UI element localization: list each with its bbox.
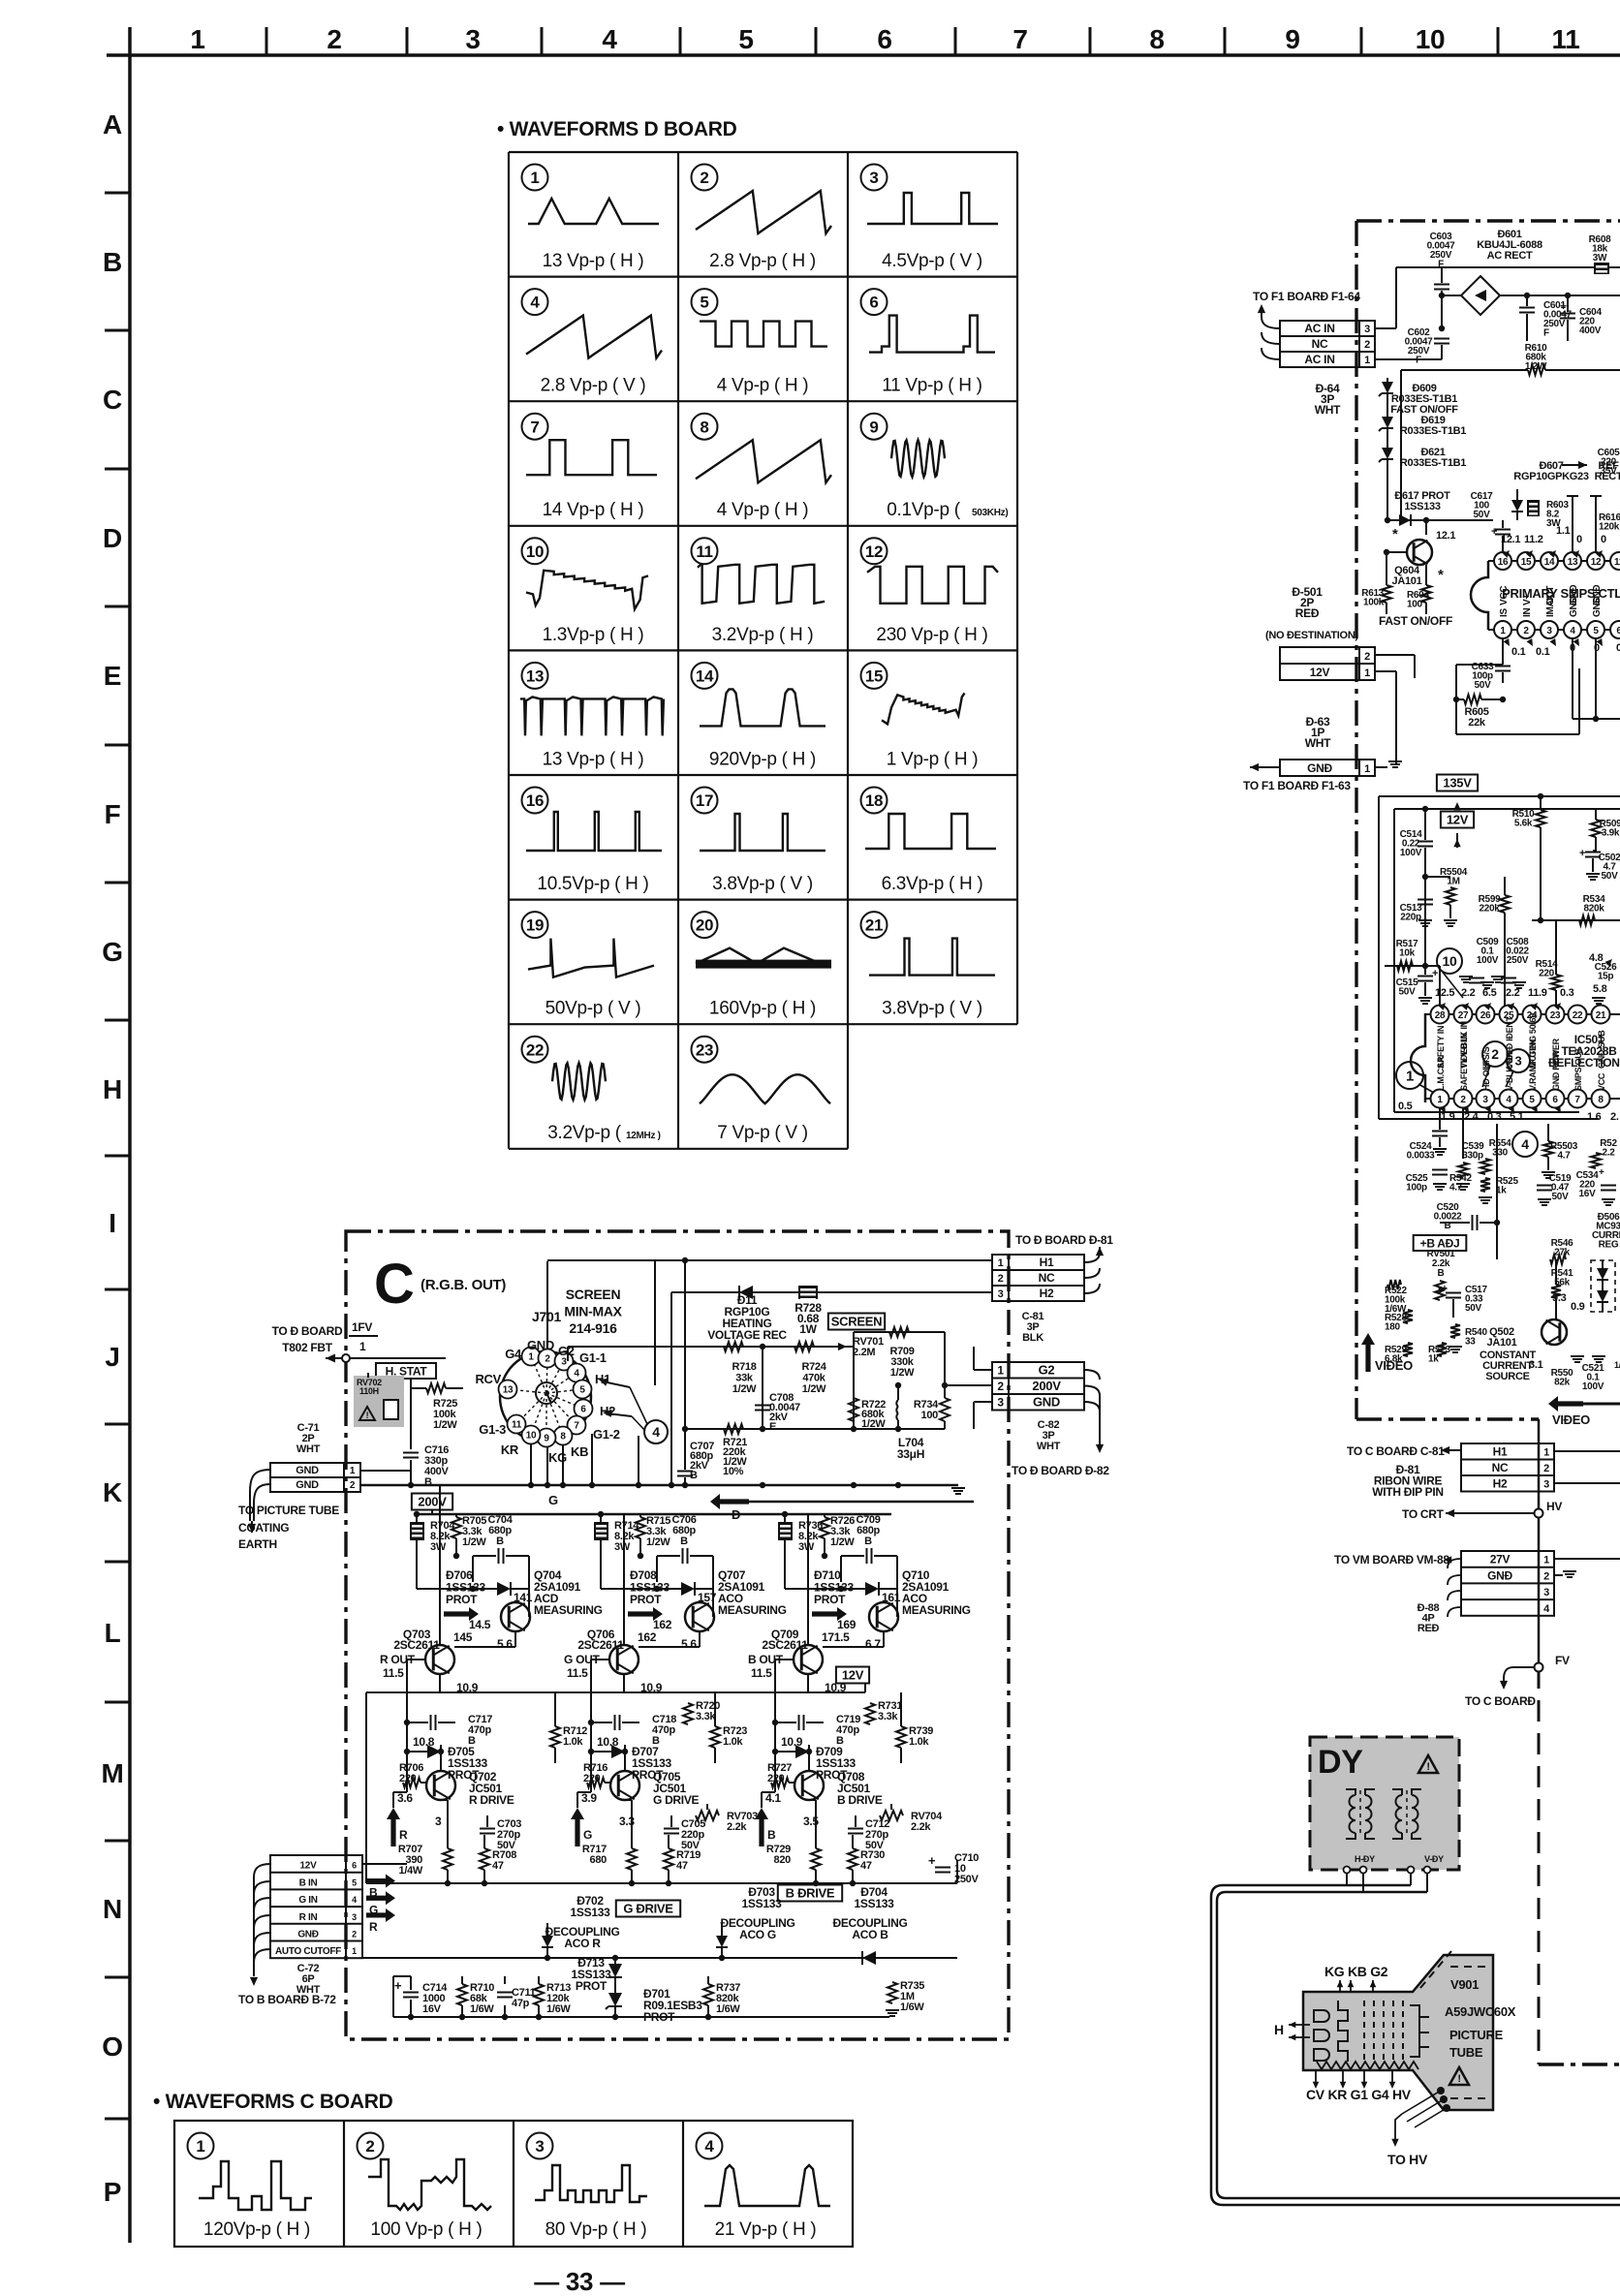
waveform cell 3: [861, 165, 888, 191]
svg-text:VIĐEO: VIĐEO: [1375, 1358, 1413, 1373]
svg-text:0.1: 0.1: [1511, 646, 1526, 658]
svg-text:ĐEFLECTION PROCES: ĐEFLECTION PROCES: [1548, 1056, 1620, 1070]
svg-text:JA101: JA101: [1392, 575, 1422, 587]
svg-text:F: F: [105, 799, 121, 829]
svg-text:MEASURING: MEASURING: [902, 1603, 971, 1617]
svg-text:2.2: 2.2: [1506, 987, 1520, 999]
waveform cell 18: [861, 788, 888, 814]
svg-text:11: 11: [1614, 557, 1620, 568]
200V rail: [417, 1513, 891, 1516]
svg-text:VCC: VCC: [1597, 1072, 1606, 1091]
svg-text:7: 7: [1574, 1095, 1580, 1105]
svg-text:35V: 35V: [1601, 466, 1618, 477]
svg-text:50V: 50V: [1465, 1303, 1482, 1314]
svg-text:1SS133: 1SS133: [855, 1897, 895, 1910]
svg-text:2.4: 2.4: [1464, 1111, 1480, 1123]
svg-text:10.5Vp-p ( H ): 10.5Vp-p ( H ): [537, 874, 648, 894]
pin 27: [1454, 1006, 1473, 1024]
svg-text:3W: 3W: [798, 1541, 815, 1553]
resistor R734: [944, 1385, 946, 1398]
200V label: [412, 1494, 452, 1510]
svg-text:G1-1: G1-1: [579, 1350, 607, 1365]
svg-text:2: 2: [1491, 1046, 1499, 1062]
svg-text:21 Vp-p ( H ): 21 Vp-p ( H ): [715, 2219, 817, 2240]
svg-text:7: 7: [530, 418, 539, 436]
svg-text:820: 820: [774, 1854, 792, 1866]
svg-text:CV KR G1 G4 HV: CV KR G1 G4 HV: [1306, 2087, 1412, 2102]
svg-text:4.5Vp-p ( V ): 4.5Vp-p ( V ): [882, 251, 982, 271]
svg-text:10: 10: [526, 543, 544, 561]
svg-text:KB: KB: [571, 1444, 588, 1459]
svg-text:G: G: [583, 1828, 592, 1842]
svg-text:0: 0: [1576, 534, 1582, 545]
svg-text:9: 9: [1285, 24, 1299, 54]
svg-text:F: F: [1543, 328, 1549, 339]
svg-text:2SC2611: 2SC2611: [762, 1638, 808, 1652]
wire H1: [655, 1261, 992, 1263]
svg-text:100: 100: [921, 1410, 939, 1421]
waveform cell 21: [861, 912, 888, 938]
svg-text:12.5: 12.5: [1435, 987, 1454, 999]
svg-text:7: 7: [574, 1421, 579, 1432]
transistor Q702: [426, 1771, 455, 1800]
resistor R725: [426, 1383, 446, 1393]
svg-text:470k: 470k: [802, 1373, 826, 1384]
svg-text:1: 1: [1543, 1555, 1549, 1567]
pin 6: [1546, 1090, 1565, 1108]
pin headers: [1572, 496, 1573, 508]
waveform cell 7: [522, 414, 548, 440]
svg-text:17: 17: [696, 791, 713, 810]
svg-text:1FV: 1FV: [352, 1320, 372, 1334]
svg-text:200V: 200V: [1032, 1379, 1061, 1393]
svg-text:1: 1: [1364, 763, 1370, 775]
svg-text:100 Vp-p ( H ): 100 Vp-p ( H ): [370, 2219, 482, 2240]
svg-text:PROT: PROT: [816, 1768, 848, 1782]
svg-text:1: 1: [352, 1946, 357, 1956]
svg-text:H: H: [1274, 2022, 1284, 2037]
svg-text:MIN-MAX: MIN-MAX: [564, 1304, 622, 1319]
svg-text:21: 21: [865, 916, 883, 935]
svg-text:+: +: [1491, 526, 1497, 538]
svg-text:5: 5: [700, 294, 708, 312]
svg-text:3: 3: [535, 2137, 544, 2156]
waveform cell 19: [522, 912, 548, 938]
svg-text:7 Vp-p ( V ): 7 Vp-p ( V ): [717, 1123, 808, 1143]
B feedback arrow: [710, 1494, 749, 1509]
svg-text:R033ES-T1B1: R033ES-T1B1: [1400, 425, 1466, 437]
svg-text:6.3Vp-p ( H ): 6.3Vp-p ( H ): [882, 874, 983, 894]
svg-text:0.0033: 0.0033: [1407, 1151, 1436, 1162]
signal arrow R in: [366, 1908, 395, 1922]
svg-text:3.8Vp-p ( V ): 3.8Vp-p ( V ): [712, 874, 813, 894]
C-72 leads: [254, 1864, 270, 1877]
svg-text:B: B: [496, 1536, 504, 1547]
stage wires: [600, 1540, 602, 1589]
pot RV701: [838, 1343, 847, 1350]
svg-text:27: 27: [1458, 1010, 1469, 1021]
svg-text:TO CRT: TO CRT: [1402, 1507, 1445, 1521]
svg-text:P: P: [104, 2177, 121, 2207]
svg-text:11.5: 11.5: [383, 1666, 404, 1680]
svg-text:RCV: RCV: [475, 1372, 501, 1386]
transistor Q706: [609, 1645, 639, 1674]
svg-text:T802 FBT: T802 FBT: [282, 1341, 333, 1354]
svg-text:10: 10: [526, 1431, 537, 1442]
svg-text:6: 6: [869, 294, 878, 312]
svg-text:I: I: [109, 1208, 115, 1238]
pot RV703: [688, 1804, 742, 1827]
emitter bus: [366, 1882, 957, 1884]
svg-text:12.1: 12.1: [1501, 534, 1520, 545]
tube resistive coating: [1317, 2062, 1418, 2069]
ground bus: [360, 1484, 958, 1487]
svg-text:2: 2: [545, 1354, 550, 1365]
12V rail: [366, 1691, 865, 1693]
svg-text:E: E: [769, 1421, 776, 1433]
svg-text:4: 4: [704, 2137, 714, 2156]
svg-text:16: 16: [1498, 557, 1509, 568]
svg-text:2.: 2.: [1610, 1111, 1619, 1123]
svg-text:6: 6: [1616, 626, 1620, 636]
svg-text:GND: GND: [527, 1338, 554, 1352]
svg-text:H2: H2: [1493, 1477, 1508, 1491]
waveform cell 9: [861, 414, 888, 440]
svg-text:2: 2: [352, 1930, 357, 1939]
svg-text:K: K: [103, 1477, 122, 1507]
svg-text:5.8: 5.8: [1593, 983, 1607, 995]
svg-text:1/2W: 1/2W: [890, 1367, 915, 1379]
svg-text:3: 3: [869, 169, 878, 187]
svg-text:TO PICTURE TUBE: TO PICTURE TUBE: [238, 1504, 339, 1517]
svg-text:6: 6: [352, 1861, 357, 1871]
svg-text:8: 8: [700, 418, 708, 436]
diode D619: [1382, 417, 1393, 428]
capacitor C714: [403, 1992, 419, 1994]
pin 25: [1500, 1006, 1518, 1024]
page border ruler top: [107, 53, 1620, 57]
svg-text:1.1: 1.1: [1556, 525, 1571, 537]
svg-text:1/4: 1/4: [1614, 1360, 1620, 1370]
svg-text:100V: 100V: [1582, 1381, 1604, 1392]
waveform cell 23: [692, 1037, 718, 1063]
svg-text:R033ES-T1B1: R033ES-T1B1: [1400, 457, 1466, 469]
svg-text:4.7: 4.7: [1557, 1151, 1571, 1162]
pin 3: [1541, 621, 1558, 638]
svg-text:2: 2: [1364, 651, 1370, 663]
svg-text:5.6k: 5.6k: [1514, 819, 1533, 829]
resistor R735: [888, 1982, 897, 2003]
svg-text:23: 23: [696, 1040, 713, 1059]
svg-text:1: 1: [359, 1340, 366, 1353]
svg-text:2.2k: 2.2k: [727, 1821, 747, 1833]
svg-text:FAST ON/OFF: FAST ON/OFF: [1379, 614, 1452, 628]
svg-text:180: 180: [1385, 1322, 1401, 1333]
svg-text:820k: 820k: [1583, 904, 1604, 915]
svg-text:220p: 220p: [1400, 913, 1421, 923]
B DRIVE label: [778, 1885, 842, 1902]
svg-text:15: 15: [865, 667, 883, 686]
svg-text:3W: 3W: [430, 1541, 447, 1553]
wire socket cathodes: [530, 1444, 532, 1485]
svg-text:11: 11: [512, 1420, 522, 1431]
svg-text:12: 12: [865, 543, 883, 561]
svg-text:FV: FV: [1555, 1654, 1570, 1667]
svg-text:AUTO CUTOFF: AUTO CUTOFF: [275, 1946, 341, 1957]
svg-text:L.M.CAP.: L.M.CAP.: [1436, 1056, 1446, 1091]
svg-text:2: 2: [700, 169, 708, 187]
svg-text:1.6: 1.6: [1587, 1111, 1602, 1123]
diode D711 heating voltage rec: [671, 1291, 992, 1293]
signal arrow B in: [366, 1875, 395, 1888]
resistor R713: [534, 1984, 544, 2005]
pin 26: [1477, 1006, 1495, 1024]
transistor Q709: [794, 1645, 823, 1674]
svg-text:1: 1: [350, 1466, 356, 1476]
svg-text:3: 3: [1364, 324, 1370, 335]
pin 4: [1564, 621, 1581, 638]
svg-text:IS: IS: [1499, 608, 1510, 617]
svg-text:1: 1: [1364, 667, 1370, 679]
svg-text:G ĐRIVE: G ĐRIVE: [623, 1902, 673, 1916]
G DRIVE label: [616, 1901, 680, 1917]
pin 23: [1546, 1006, 1565, 1024]
svg-text:KG KB G2: KG KB G2: [1324, 1964, 1388, 1979]
svg-text:1SS133: 1SS133: [742, 1897, 783, 1910]
svg-text:5: 5: [352, 1877, 357, 1887]
svg-text:10k: 10k: [1399, 948, 1416, 959]
svg-text:6.7: 6.7: [865, 1637, 881, 1651]
svg-text:26: 26: [1480, 1010, 1491, 1021]
svg-text:82k: 82k: [1554, 1378, 1571, 1388]
wire box outer: [1379, 795, 1620, 797]
capacitor C710: [956, 1860, 958, 1883]
svg-text:1/2W: 1/2W: [732, 1383, 757, 1395]
svg-text:G2: G2: [1039, 1363, 1055, 1378]
svg-text:SCREEN: SCREEN: [831, 1315, 882, 1329]
waveform cell 6: [861, 289, 888, 315]
svg-text:3: 3: [435, 1815, 442, 1828]
C board dash-dot border: [346, 1231, 1009, 2039]
pin 8: [1592, 1090, 1610, 1108]
amplifier stage R: [416, 1514, 418, 1560]
svg-text:L: L: [105, 1618, 121, 1648]
pin 28: [1431, 1006, 1449, 1024]
resistor R613: [1382, 585, 1391, 603]
svg-text:ACO G: ACO G: [739, 1928, 776, 1941]
svg-text:R: R: [369, 1920, 378, 1934]
svg-text:TO Đ BOARD: TO Đ BOARD: [272, 1324, 343, 1338]
svg-text:330: 330: [1492, 1148, 1509, 1159]
resistor R605: [1456, 698, 1464, 700]
svg-text:C: C: [103, 385, 122, 415]
svg-text:4: 4: [1506, 1095, 1511, 1105]
svg-text:15: 15: [1521, 557, 1532, 568]
svg-text:G4: G4: [505, 1347, 522, 1361]
svg-text:!: !: [1426, 1761, 1429, 1773]
svg-text:PROT: PROT: [446, 1593, 478, 1606]
svg-text:1: 1: [530, 169, 539, 187]
svg-text:3: 3: [1543, 1479, 1549, 1491]
svg-text:0: 0: [1570, 642, 1575, 654]
svg-text:+: +: [1599, 1167, 1604, 1178]
waveform cell 13: [522, 663, 548, 689]
svg-text:B ĐRIVE: B ĐRIVE: [786, 1886, 835, 1901]
svg-text:A: A: [103, 109, 122, 140]
pin 2: [1517, 621, 1535, 638]
svg-text:10.8: 10.8: [413, 1735, 435, 1749]
svg-text:JA101: JA101: [1487, 1337, 1517, 1349]
resistor R720: [683, 1703, 693, 1724]
svg-text:0.9: 0.9: [1571, 1301, 1585, 1313]
svg-text:A59JWC60X: A59JWC60X: [1445, 2004, 1516, 2019]
svg-text:23: 23: [1550, 1010, 1561, 1021]
signal arrow B: [755, 1808, 768, 1846]
svg-text:50V: 50V: [1475, 680, 1492, 691]
svg-text:TO Đ BOARD Đ-82: TO Đ BOARD Đ-82: [1012, 1464, 1109, 1477]
svg-text:AC IN: AC IN: [1304, 322, 1334, 335]
svg-text:+: +: [1560, 299, 1567, 313]
svg-text:1.0k: 1.0k: [909, 1736, 929, 1748]
wire video row: [1379, 1284, 1385, 1286]
svg-text:2: 2: [350, 1480, 356, 1491]
VIDEO arrow 2: [1548, 1396, 1583, 1412]
svg-text:AC RECT: AC RECT: [1487, 250, 1533, 262]
circled 1: [1396, 1062, 1423, 1089]
svg-text:KG: KG: [548, 1450, 567, 1465]
svg-text:1: 1: [997, 1364, 1004, 1378]
svg-text:REG: REG: [1599, 1240, 1619, 1251]
svg-text:120k: 120k: [1599, 522, 1620, 533]
pot RV501 +B ADJ: [1414, 1235, 1467, 1251]
svg-text:13 Vp-p ( H ): 13 Vp-p ( H ): [543, 749, 644, 769]
svg-text:4: 4: [530, 294, 540, 312]
svg-text:G1-3: G1-3: [479, 1422, 506, 1437]
svg-text:1/6W: 1/6W: [546, 2003, 571, 2015]
svg-text:+: +: [1579, 848, 1585, 859]
svg-text:12V: 12V: [1310, 666, 1330, 679]
resistor R739: [896, 1726, 906, 1748]
waveform C cell 2: [358, 2133, 384, 2159]
svg-text:— 33 —: — 33 —: [534, 2267, 625, 2296]
svg-text:GNĐ: GNĐ: [1307, 761, 1332, 775]
svg-text:WHT: WHT: [296, 1443, 321, 1455]
svg-text:H1: H1: [1493, 1445, 1508, 1459]
svg-text:G1-2: G1-2: [593, 1427, 620, 1442]
svg-text:13: 13: [503, 1385, 514, 1396]
svg-text:5.6: 5.6: [681, 1637, 697, 1651]
svg-text:3: 3: [1482, 1095, 1488, 1105]
svg-text:MEASURING: MEASURING: [718, 1603, 787, 1617]
svg-text:100V: 100V: [1477, 955, 1499, 966]
inductor L704: [897, 1420, 899, 1429]
svg-text:1: 1: [1364, 355, 1370, 366]
svg-text:EARTH: EARTH: [238, 1537, 277, 1551]
svg-text:*: *: [1438, 567, 1444, 583]
pin 16: [1494, 552, 1511, 570]
capacitor C708: [762, 1347, 763, 1429]
svg-text:R: R: [399, 1828, 408, 1842]
svg-text:9: 9: [544, 1434, 549, 1444]
svg-text:5: 5: [738, 24, 753, 54]
pin 2: [1454, 1090, 1473, 1108]
svg-text:22: 22: [1573, 1010, 1583, 1021]
svg-text:162: 162: [638, 1630, 657, 1644]
resistor R722: [853, 1347, 855, 1429]
svg-text:REĐ: REĐ: [1417, 1623, 1440, 1634]
svg-text:12.1: 12.1: [1436, 530, 1455, 542]
svg-text:4 Vp-p ( H ): 4 Vp-p ( H ): [717, 376, 809, 396]
pin 14: [1541, 552, 1558, 570]
svg-text:680: 680: [590, 1854, 607, 1866]
svg-text:1: 1: [1500, 626, 1506, 636]
svg-text:3.3k: 3.3k: [878, 1711, 898, 1722]
svg-text:!: !: [1457, 2073, 1460, 2085]
connector C-72: [270, 1855, 346, 1958]
svg-text:3W: 3W: [614, 1541, 631, 1553]
svg-text:• WAVEFORMS D BOARD: • WAVEFORMS D BOARD: [497, 118, 737, 140]
svg-text:2: 2: [1543, 1570, 1549, 1582]
svg-text:KR: KR: [501, 1443, 519, 1457]
svg-text:10.8: 10.8: [597, 1735, 619, 1749]
pin 4: [1500, 1090, 1518, 1108]
tube internals: [1314, 2010, 1324, 2022]
resistor R604: [1421, 585, 1431, 603]
svg-text:12V: 12V: [1447, 813, 1469, 827]
svg-text:ACO B: ACO B: [852, 1928, 888, 1941]
svg-text:1/6W: 1/6W: [900, 2001, 924, 2013]
node 4 circle: [644, 1420, 668, 1443]
svg-text:47: 47: [676, 1860, 688, 1872]
svg-text:B: B: [103, 247, 122, 277]
svg-text:16: 16: [526, 791, 544, 810]
svg-text:WITH ĐIP PIN: WITH ĐIP PIN: [1372, 1485, 1444, 1499]
svg-text:21: 21: [1596, 1010, 1606, 1021]
svg-text:9.3: 9.3: [1552, 1292, 1567, 1304]
svg-text:MEASURING: MEASURING: [534, 1603, 603, 1617]
svg-text:19: 19: [526, 916, 544, 935]
svg-text:27V: 27V: [1490, 1553, 1511, 1567]
waveform cell 22: [522, 1037, 548, 1063]
svg-text:RGP10GPKG23: RGP10GPKG23: [1513, 471, 1589, 482]
svg-text:50V: 50V: [1474, 510, 1491, 520]
svg-text:2.2: 2.2: [1602, 1148, 1615, 1159]
svg-text:13 Vp-p ( H ): 13 Vp-p ( H ): [543, 251, 644, 271]
svg-text:2: 2: [1460, 1095, 1466, 1105]
svg-text:0: 0: [1594, 642, 1600, 654]
svg-text:IN: IN: [1522, 608, 1533, 617]
transistor Q708: [794, 1771, 824, 1800]
svg-text:HV: HV: [1546, 1500, 1562, 1513]
resistor R709: [853, 1332, 855, 1347]
svg-text:5: 5: [1593, 626, 1599, 636]
svg-text:169: 169: [837, 1618, 857, 1631]
resistor R712: [550, 1726, 560, 1748]
svg-text:3.2Vp-p (: 3.2Vp-p (: [547, 1123, 621, 1143]
svg-text:3.1: 3.1: [1529, 1359, 1543, 1371]
svg-text:H-ĐY: H-ĐY: [1355, 1854, 1375, 1864]
tube socket J701: [500, 1351, 591, 1443]
waveform cell 20: [692, 912, 718, 938]
svg-text:0.3: 0.3: [1487, 1111, 1502, 1123]
svg-text:2SC2611: 2SC2611: [393, 1638, 440, 1652]
circled 10: [1437, 948, 1462, 974]
svg-text:1SS133: 1SS133: [571, 1906, 611, 1919]
transistor Q704: [501, 1602, 530, 1631]
svg-text:WHT: WHT: [1305, 736, 1331, 750]
pin 1: [1494, 621, 1511, 638]
svg-text:3: 3: [561, 1357, 567, 1368]
